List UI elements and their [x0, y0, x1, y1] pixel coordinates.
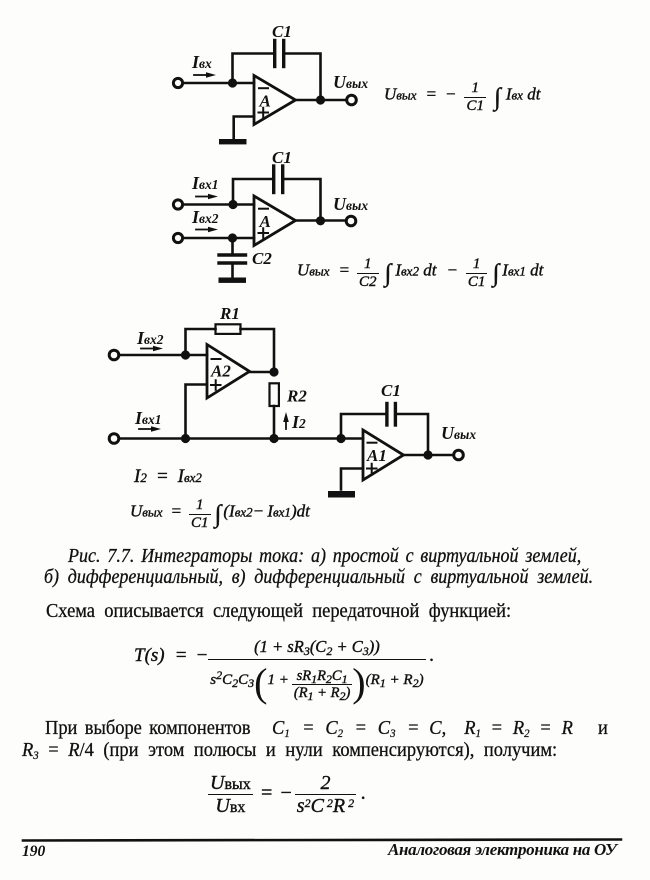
node: output junction (circuit b)	[316, 216, 325, 225]
wire: A2 non-inverting input over and down to bottom rail	[186, 385, 208, 437]
svg-text:C1: C1	[381, 381, 401, 400]
output terminal (circuit b)	[346, 216, 356, 226]
value label R2	[286, 387, 307, 406]
value label C1 (circuit b)	[272, 148, 292, 167]
op-amp A (circuit a)	[254, 76, 296, 125]
op-amp A2	[207, 345, 250, 399]
ground (circuit b)	[219, 278, 247, 283]
equation I2 = Iвх2 (circuit c)	[134, 466, 202, 488]
svg-text:R1: R1	[219, 304, 240, 323]
wire: node up and over to C1 left plate	[233, 54, 274, 84]
current label Iвх1 with arrow (circuit c)	[134, 408, 162, 432]
op-amp A1	[363, 430, 404, 480]
capacitor C2 (circuit b)	[219, 255, 246, 263]
node: output junction (circuit a)	[316, 95, 325, 104]
formula for circuit b	[297, 257, 543, 290]
input terminal Iвх2 (circuit c)	[109, 350, 119, 360]
wire: C2 bottom plate to ground	[231, 265, 234, 277]
output terminal (circuit c)	[454, 450, 464, 460]
footer rule	[23, 840, 621, 841]
svg-text:Iвх1: Iвх1	[191, 173, 219, 193]
svg-text:Iвх: Iвх	[191, 52, 212, 72]
svg-text:Uвых: Uвых	[441, 423, 476, 443]
node: A2 inverting input junction	[181, 350, 190, 359]
output label Uвых (circuit c)	[441, 423, 476, 443]
wire: input terminal to inverting node	[183, 82, 254, 85]
wire: op-amp output to output terminal (circuit b)	[296, 219, 346, 222]
svg-text:Uвых: Uвых	[333, 72, 368, 92]
wire: A1 output to output terminal	[404, 454, 454, 457]
input terminal Iвх1 (circuit c)	[109, 434, 119, 444]
wire: A2 output to R2 top node	[250, 371, 275, 374]
svg-text:Iвх2: Iвх2	[136, 328, 164, 348]
wire: inverting node up and over to R1 left lead	[186, 329, 216, 353]
node: inverting input junction (circuit b)	[228, 200, 237, 209]
node: A2 non-inverting tap on bottom rail	[181, 434, 190, 443]
footer page number	[22, 843, 45, 861]
capacitor C1 (circuit c)	[387, 404, 396, 426]
node: A1 inverting input junction	[336, 434, 345, 443]
op-amp A (circuit b)	[254, 196, 296, 246]
resistor R2	[270, 383, 279, 406]
formula for circuit c	[130, 498, 310, 531]
current label Iвх with arrow	[191, 52, 216, 78]
wire: C1 right plate over and down to output node (circuit c)	[397, 414, 428, 453]
input terminal 2 (circuit b)	[173, 233, 182, 242]
ground (circuit a)	[219, 139, 247, 144]
wire: input 2 to non-inverting node	[183, 237, 254, 240]
value label C1 (circuit c)	[381, 381, 401, 400]
wire: op-amp output to output terminal	[296, 99, 347, 102]
svg-text:C1: C1	[272, 148, 292, 167]
wire: R2 bottom lead down to bottom rail node	[273, 406, 276, 437]
value label C1 (circuit a)	[272, 22, 292, 41]
body paragraph 2	[45, 717, 251, 740]
output terminal (circuit a)	[347, 95, 357, 105]
svg-text:A2: A2	[210, 362, 231, 381]
wire: node up and over to C1 left plate (circuit b)	[233, 179, 272, 205]
wire: non-inverting input to ground	[234, 117, 254, 139]
input terminal 1 (circuit b)	[173, 200, 182, 209]
current label Iвх2 with arrow	[191, 207, 219, 232]
capacitor C1 (circuit a)	[275, 41, 284, 67]
capacitor C1 (circuit b)	[274, 166, 283, 193]
wire: input Iвх2 to A2 inverting input	[119, 354, 207, 357]
wire: A1 non-inverting input over and down to ground	[341, 469, 363, 490]
ground (circuit c)	[328, 491, 355, 498]
figure caption	[68, 545, 581, 568]
svg-text:I2: I2	[291, 412, 306, 432]
output label Uвых (circuit a)	[333, 72, 368, 92]
transfer function T(s)	[134, 639, 434, 701]
svg-text:Iвх2: Iвх2	[191, 207, 219, 227]
current label I2 with up arrow	[283, 412, 306, 432]
current label Iвх1 with arrow	[191, 173, 219, 199]
wire: node 2 down to C2 top plate	[231, 238, 234, 253]
formula for circuit a	[384, 81, 540, 114]
svg-text:Iвх1: Iвх1	[134, 408, 162, 428]
wire: C1 right plate to output node (circuit b)	[284, 179, 321, 219]
value label R1	[219, 304, 240, 323]
svg-text:C1: C1	[272, 22, 292, 41]
node: A2 output junction	[269, 367, 278, 376]
input terminal (circuit a)	[173, 78, 182, 87]
node: inverting input junction (circuit a)	[228, 78, 237, 87]
node: non-inverting input junction (circuit b)	[228, 233, 237, 242]
output label Uвых (circuit b)	[333, 194, 368, 214]
final formula	[208, 773, 366, 816]
node: output junction (circuit c)	[423, 450, 432, 459]
svg-text:A1: A1	[366, 446, 387, 465]
svg-text:C2: C2	[252, 249, 272, 268]
resistor R1	[216, 324, 241, 334]
body paragraph 1	[46, 600, 511, 623]
wire: R1 right lead over and down to A2 output node	[241, 329, 275, 370]
svg-text:A: A	[259, 212, 271, 231]
wire: bottom rail from input Iвх1 to A1 inverting input	[119, 437, 363, 440]
value label C2 (circuit b)	[252, 249, 272, 268]
svg-text:R2: R2	[286, 387, 307, 406]
wire: input 1 to inverting node	[183, 203, 254, 206]
svg-text:Uвых: Uвых	[333, 194, 368, 214]
current label Iвх2 with arrow (circuit c)	[136, 328, 164, 351]
wire: C1 right plate to output node	[285, 54, 321, 99]
wire: A1 inverting node up and over to C1 left plate	[341, 414, 385, 437]
svg-text:A: A	[259, 92, 271, 111]
footer book title	[388, 840, 617, 860]
node: R2 bottom junction on bottom rail	[269, 434, 278, 443]
